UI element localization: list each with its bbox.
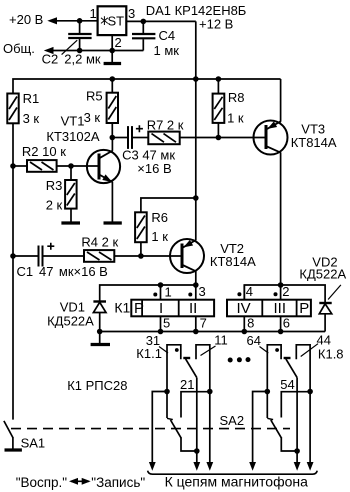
svg-text:C4: C4 xyxy=(159,28,176,43)
leader 11 xyxy=(201,346,216,356)
transistor VT3 type label xyxy=(291,135,337,150)
svg-text:VD1: VD1 xyxy=(60,300,85,315)
svg-text:7: 7 xyxy=(200,316,207,331)
wire Общ. line xyxy=(52,50,144,52)
ground under pin2 xyxy=(104,62,122,65)
coil pin 2 lead xyxy=(280,285,282,300)
svg-text:R8: R8 xyxy=(228,90,245,105)
junction rail 64 xyxy=(265,389,271,395)
label K1.1 xyxy=(136,346,162,361)
leader 44 xyxy=(301,344,318,357)
relay K1 coil box right xyxy=(227,300,311,317)
junction pin6 xyxy=(278,329,284,335)
coil pin 8 lead xyxy=(243,316,245,331)
wire 64 column to SA2 xyxy=(266,392,268,419)
svg-text:×16 В: ×16 В xyxy=(137,161,171,176)
mode arrow left head xyxy=(69,478,78,485)
junction R3 top xyxy=(68,163,74,169)
svg-text:3: 3 xyxy=(199,284,206,299)
svg-text:21: 21 xyxy=(180,377,194,392)
transistor VT2 emitter arrow xyxy=(183,240,193,248)
transistor VT1 emitter arrow xyxy=(102,174,112,182)
svg-text:1: 1 xyxy=(90,6,97,21)
transistor VT3 label xyxy=(301,122,325,137)
capacitor C1 plus sign xyxy=(47,243,54,250)
svg-text:2: 2 xyxy=(282,284,289,299)
ground under VT1 emitter xyxy=(104,221,122,224)
junction R6 bottom xyxy=(138,253,144,259)
output arrow 11 xyxy=(206,462,213,471)
resistor R1 value xyxy=(23,111,40,126)
label 11 xyxy=(214,333,228,348)
pin 2 label xyxy=(115,35,122,50)
junction R2 left xyxy=(10,163,16,169)
coil cell III xyxy=(274,300,287,317)
junction pin2-Общ xyxy=(109,48,115,54)
label 31 xyxy=(146,333,160,348)
svg-text:2,2 мк: 2,2 мк xyxy=(64,51,101,66)
switch SA1 label xyxy=(21,436,46,451)
node +12V label xyxy=(199,17,233,32)
resistor R3 value xyxy=(46,198,63,213)
svg-text:К цепям магнитофона: К цепям магнитофона xyxy=(165,474,309,490)
transistor VT3 emitter arrow xyxy=(267,121,277,128)
junction C4 top xyxy=(141,19,147,25)
svg-text:47: 47 xyxy=(39,264,53,279)
label 44 xyxy=(317,333,331,348)
wire rail 21 side xyxy=(181,392,210,418)
svg-text:6: 6 xyxy=(283,316,290,331)
junction rail 31 xyxy=(164,389,170,395)
svg-text:C1: C1 xyxy=(17,264,34,279)
junction SA2 left xyxy=(194,448,200,454)
coil pin 1 lead xyxy=(160,285,162,300)
output arrow 21 xyxy=(193,462,200,471)
svg-text:R3: R3 xyxy=(46,178,63,193)
contact K1.8 position dot xyxy=(275,348,279,352)
leader 64 xyxy=(260,347,269,354)
regulator DA1 marking ST xyxy=(101,13,124,28)
diode VD2 label xyxy=(312,255,337,270)
coil pin 5 lead xyxy=(160,316,162,331)
transistor VT2 type label xyxy=(210,254,256,269)
svg-text:мк×16 В: мк×16 В xyxy=(59,264,108,279)
label K1.8 xyxy=(318,347,344,362)
resistor R7 label xyxy=(147,118,184,133)
resistor R6 value xyxy=(151,229,168,244)
resistor R7 xyxy=(148,132,265,145)
svg-text:ST: ST xyxy=(108,13,125,28)
op-amp U1 regulator DA1 box xyxy=(98,6,127,35)
svg-text:IV: IV xyxy=(237,300,251,317)
junction pin1 top xyxy=(158,282,164,288)
transistor VT2 label xyxy=(220,241,244,256)
junction rail 44 xyxy=(307,389,313,395)
svg-text:III: III xyxy=(274,300,287,317)
svg-text:SA1: SA1 xyxy=(21,436,46,451)
svg-text:КД522А: КД522А xyxy=(47,314,94,329)
junction C1 left xyxy=(10,253,16,259)
junction bus +12 feed xyxy=(193,76,199,82)
wire rail 64 side xyxy=(253,392,268,463)
svg-text:11: 11 xyxy=(214,333,228,348)
contact seat SA2 left xyxy=(167,418,173,419)
label К цепям магнитофона xyxy=(165,474,309,490)
svg-text:I: I xyxy=(159,300,163,317)
svg-text:54: 54 xyxy=(280,377,294,392)
svg-text:R1: R1 xyxy=(23,91,40,106)
resistor R1 label xyxy=(23,91,40,106)
transistor Q3 VT3 xyxy=(254,79,288,285)
coil cell P left xyxy=(134,300,144,317)
junction R6-emitter xyxy=(193,195,199,201)
resistor R5 value xyxy=(84,110,101,125)
contact K1.1 terminal 31 bracket xyxy=(167,345,181,392)
relay K1 coil box left xyxy=(131,300,214,317)
coil pin 1 label xyxy=(165,285,172,300)
svg-text:Р: Р xyxy=(299,300,309,317)
contact K1.1 terminal 11 bracket xyxy=(196,345,210,392)
junction pin2-VT3 xyxy=(278,282,284,288)
coil pin 4 dot xyxy=(237,292,241,296)
switch SA1 xyxy=(4,421,13,449)
resistor R5 label xyxy=(86,89,103,104)
svg-text:64: 64 xyxy=(247,333,261,348)
node Общ. label xyxy=(3,41,35,56)
coil cell IV xyxy=(237,300,251,317)
wire blade to junction left xyxy=(181,438,197,452)
label Воспр xyxy=(16,475,68,490)
svg-text:II: II xyxy=(189,300,197,317)
contact K1.1 armature xyxy=(183,358,197,463)
junction pin5 xyxy=(158,329,164,335)
svg-text:К1 РПС28: К1 РПС28 xyxy=(67,378,127,393)
ground under R3 xyxy=(61,221,80,224)
wire +20V to pin1 xyxy=(55,20,98,22)
coil pin 4 label xyxy=(246,284,253,299)
junction rail 11 xyxy=(207,389,213,395)
svg-text:2 к: 2 к xyxy=(46,198,63,213)
svg-text:8: 8 xyxy=(247,316,254,331)
relay K1 label xyxy=(114,300,130,316)
label 54 xyxy=(280,377,294,392)
output arrow 44 xyxy=(307,462,314,471)
pin 3 label xyxy=(128,6,135,21)
resistor R5 xyxy=(107,79,118,138)
junction SA2 right xyxy=(294,448,300,454)
diode VD1 label xyxy=(60,300,85,315)
resistor R8 value xyxy=(227,111,244,126)
svg-text:"Воспр.": "Воспр." xyxy=(16,475,68,490)
diode VD2 xyxy=(319,285,341,332)
capacitor C1 value label xyxy=(17,264,108,279)
svg-text:R2 10 к: R2 10 к xyxy=(22,144,66,159)
wire rail 31 side xyxy=(152,392,167,463)
resistor R1 xyxy=(7,94,18,124)
coil pin 6 label xyxy=(283,316,290,331)
resistor R8 label xyxy=(228,90,245,105)
svg-text:КТ814А: КТ814А xyxy=(291,135,337,150)
svg-text:R6: R6 xyxy=(151,210,168,225)
output arrow 64 xyxy=(249,462,256,471)
part label DA1 КР142ЕН8Б xyxy=(146,3,247,18)
svg-text:КТ3102А: КТ3102А xyxy=(46,129,99,144)
capacitor C4 xyxy=(132,21,155,50)
svg-text:44: 44 xyxy=(317,333,331,348)
transistor VT1 type label xyxy=(46,129,99,144)
node +20V arrow xyxy=(47,17,57,24)
svg-text:3: 3 xyxy=(128,6,135,21)
label 21 xyxy=(180,377,194,392)
label 64 xyxy=(247,333,261,348)
contact K1.8 armature xyxy=(284,358,298,463)
contact seat SA2 right xyxy=(267,418,273,419)
wire 31 column to SA2 xyxy=(166,392,168,419)
svg-text:К1.8: К1.8 xyxy=(318,347,344,362)
junction pin7 xyxy=(193,329,199,335)
switch SA2 blade left xyxy=(171,420,182,438)
resistor R8 xyxy=(213,79,225,138)
coil pin 2 label xyxy=(282,284,289,299)
svg-text:+20 В: +20 В xyxy=(9,12,43,27)
resistor R2 xyxy=(13,160,99,172)
capacitor C2 value label xyxy=(42,51,101,66)
diode VD1 xyxy=(93,302,106,344)
svg-text:"Запись": "Запись" xyxy=(91,475,145,490)
junction C2 top xyxy=(77,18,83,24)
svg-text:R4 2 к: R4 2 к xyxy=(81,235,118,250)
junction R8 bottom xyxy=(216,135,222,141)
contact K1.8 terminal 64 bracket xyxy=(267,345,281,392)
ellipsis dots between contact groups xyxy=(228,357,251,362)
svg-text:5: 5 xyxy=(163,316,170,331)
coil pin 4 lead xyxy=(243,285,245,300)
wire coil top left segment xyxy=(100,285,196,301)
wire coil bottom rail xyxy=(100,331,325,333)
capacitor C4 value label xyxy=(154,43,180,58)
svg-text:VT1: VT1 xyxy=(61,114,85,129)
svg-text:Р: Р xyxy=(134,300,144,317)
switch SA2 label xyxy=(220,413,245,428)
resistor R4 xyxy=(84,250,182,262)
capacitor C3 plus sign xyxy=(136,125,143,132)
wire 44 column down xyxy=(309,392,311,463)
label Запись xyxy=(91,475,145,490)
svg-text:R5: R5 xyxy=(86,89,103,104)
relay K1 type label xyxy=(67,378,127,393)
wire +12V bus xyxy=(13,79,281,94)
resistor R3 label xyxy=(46,178,63,193)
svg-text:3 к: 3 к xyxy=(23,111,40,126)
coil pin 3 lead xyxy=(195,285,197,300)
svg-text:1 к: 1 к xyxy=(151,229,168,244)
node Общ. arrow xyxy=(44,47,54,54)
coil cell P right xyxy=(299,300,309,317)
junction bus R5 xyxy=(110,76,116,82)
diode VD1 type label xyxy=(47,314,94,329)
svg-text:1 мк: 1 мк xyxy=(154,43,180,58)
svg-text:SA2: SA2 xyxy=(220,413,245,428)
coil cell I xyxy=(159,300,163,317)
wire +12V vertical feed xyxy=(195,21,197,198)
svg-text:К1: К1 xyxy=(114,300,130,316)
wire coil top right segment xyxy=(244,285,325,302)
ground under VD1 xyxy=(91,343,110,346)
svg-text:3 к: 3 к xyxy=(84,110,101,125)
svg-text:1 к: 1 к xyxy=(227,111,244,126)
bracket line to tape recorder xyxy=(148,471,318,475)
junction VD1 bottom xyxy=(97,329,103,335)
svg-text:Общ.: Общ. xyxy=(3,41,35,56)
capacitor C3 value line1 xyxy=(122,148,175,163)
svg-text:+12 В: +12 В xyxy=(199,17,233,32)
wire blade to junction right xyxy=(281,438,297,452)
junction pin3-VT2 xyxy=(193,282,199,288)
mode arrow right head xyxy=(82,478,91,485)
junction R5-C3-collector xyxy=(110,135,116,141)
coil pin 8 label xyxy=(247,316,254,331)
capacitor C3 value line2 xyxy=(137,161,171,176)
svg-text:C2: C2 xyxy=(42,51,59,66)
coil pin 2 dot xyxy=(274,292,278,296)
svg-text:КД522А: КД522А xyxy=(299,267,346,282)
svg-text:2: 2 xyxy=(115,35,122,50)
transistor Q1 VT1 xyxy=(87,138,120,222)
transistor VT1 label xyxy=(61,114,85,129)
output arrow 31 xyxy=(149,462,156,471)
svg-text:1: 1 xyxy=(165,285,172,300)
wire rail 54 side xyxy=(281,392,310,418)
resistor R2 label xyxy=(22,144,66,159)
coil pin 5 label xyxy=(163,316,170,331)
junction bus R8 xyxy=(216,76,222,82)
wire pin2 down xyxy=(111,35,113,62)
resistor R6 xyxy=(135,198,196,256)
diode VD2 type label xyxy=(299,267,346,282)
wire pin3 to +12V corner xyxy=(126,20,196,22)
coil cell II xyxy=(189,300,197,317)
resistor R4 label xyxy=(81,235,118,250)
capacitor C1 xyxy=(13,246,84,267)
transistor Q2 VT2 xyxy=(170,198,204,285)
mode double arrow xyxy=(71,480,89,482)
contact K1.1 position dot xyxy=(175,348,179,352)
svg-text:КТ814А: КТ814А xyxy=(210,254,256,269)
coil pin 7 lead xyxy=(195,316,197,331)
capacitor C3 xyxy=(112,126,148,149)
leader 31 xyxy=(159,347,168,354)
svg-text:4: 4 xyxy=(246,284,253,299)
pin 1 label xyxy=(90,6,97,21)
coil pin 3 label xyxy=(199,284,206,299)
node +20V label xyxy=(9,12,43,27)
coil pin 1 dot xyxy=(153,293,157,297)
resistor R3 xyxy=(65,166,77,222)
coil pin 7 label xyxy=(200,316,207,331)
capacitor C2 xyxy=(62,21,92,55)
coil pin 3 dot xyxy=(188,293,192,297)
mechanical link dashed line xyxy=(11,428,290,430)
junction pin8 xyxy=(242,329,248,335)
contact K1.8 terminal 44 bracket xyxy=(296,345,310,392)
switch SA1 bottom bar xyxy=(5,448,22,451)
wire 11 column down xyxy=(209,392,211,463)
switch SA2 blade right xyxy=(271,420,282,438)
resistor R6 label xyxy=(151,210,168,225)
left column wire R1 to SA1 xyxy=(12,123,14,419)
junction C2 bottom xyxy=(77,48,83,54)
coil pin 6 lead xyxy=(280,316,282,331)
capacitor C4 label xyxy=(159,28,176,43)
svg-text:R7 2 к: R7 2 к xyxy=(147,118,184,133)
svg-text:К1.1: К1.1 xyxy=(136,346,162,361)
output arrow 54 xyxy=(294,462,301,471)
